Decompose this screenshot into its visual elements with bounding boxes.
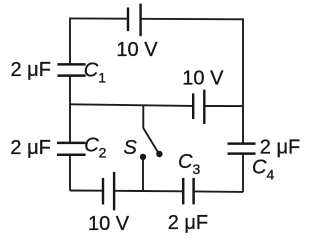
svg-text:2 μF: 2 μF: [11, 59, 51, 81]
svg-text:2 μF: 2 μF: [10, 137, 50, 159]
svg-text:2 μF: 2 μF: [168, 212, 208, 234]
svg-text:S: S: [124, 137, 138, 159]
svg-text:10 V: 10 V: [182, 68, 224, 90]
svg-text:2 μF: 2 μF: [260, 136, 300, 158]
svg-text:10 V: 10 V: [116, 39, 158, 61]
svg-text:10 V: 10 V: [88, 213, 130, 235]
